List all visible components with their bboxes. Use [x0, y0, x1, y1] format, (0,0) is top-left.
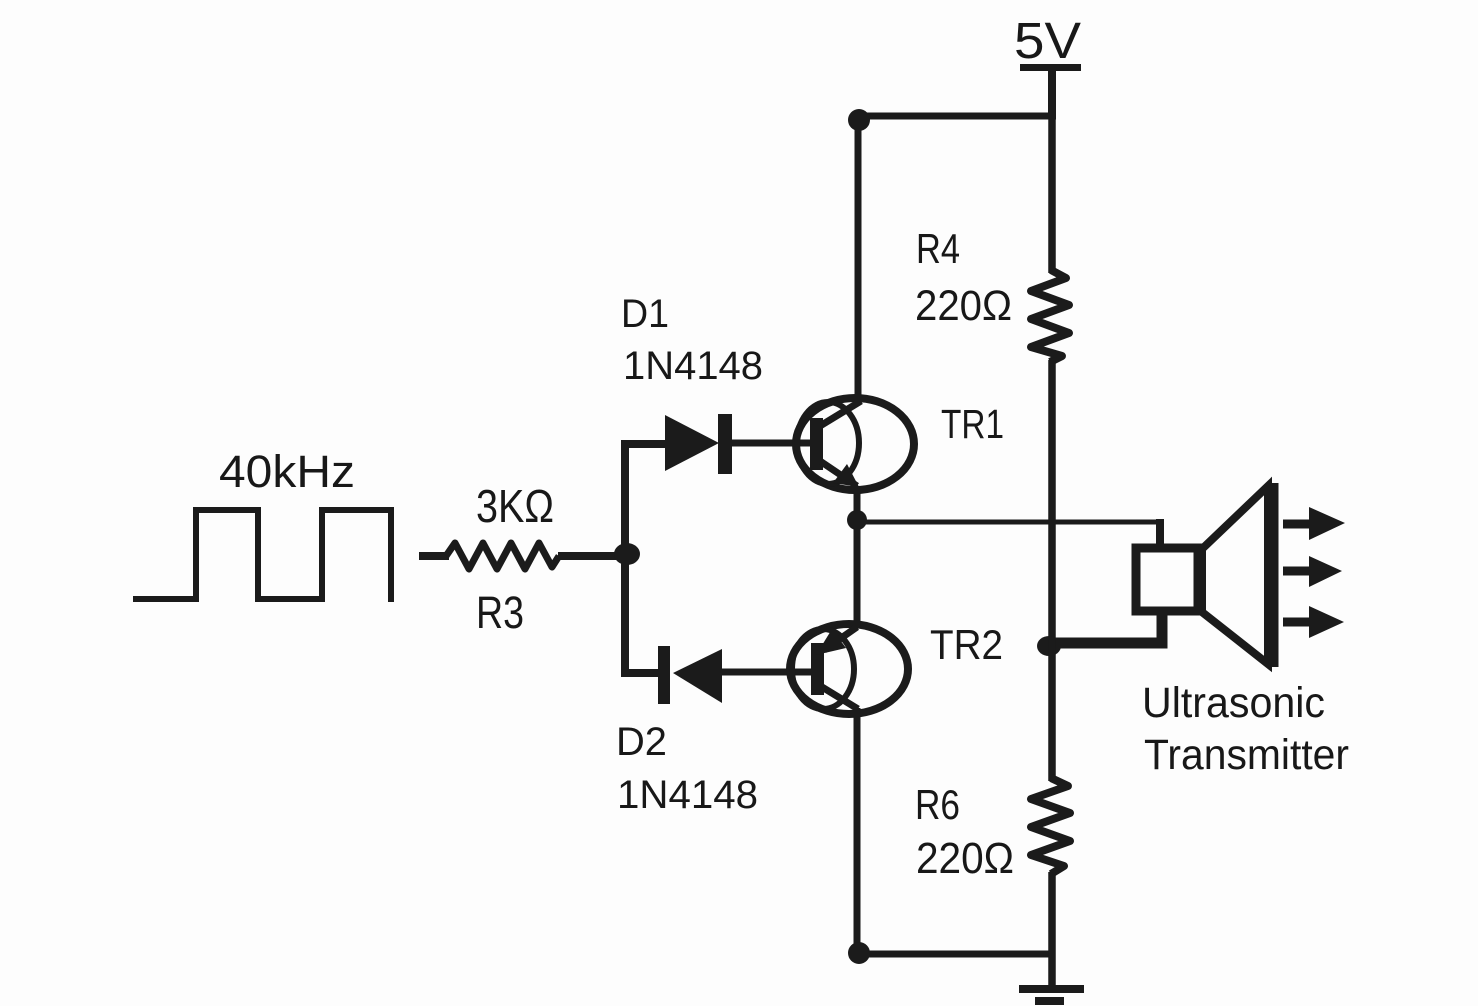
- speaker horn: [1202, 483, 1272, 667]
- wire D1 to TR1 base: [731, 440, 816, 447]
- wire node C to speaker: [1050, 612, 1162, 643]
- svg-text:D1: D1: [621, 292, 669, 336]
- wire node B to speaker: [857, 522, 1160, 549]
- diode D1: [665, 414, 732, 474]
- transistor TR2: [790, 624, 908, 714]
- ground: [1019, 989, 1084, 1001]
- svg-text:R3: R3: [476, 587, 524, 638]
- node B junction dot: [847, 510, 867, 530]
- svg-text:220Ω: 220Ω: [916, 834, 1014, 883]
- bottom rail wire: [855, 951, 1055, 958]
- svg-text:5V: 5V: [1014, 12, 1081, 69]
- wire 5V bar down to rail: [1048, 68, 1056, 119]
- speaker driver box: [1136, 548, 1198, 611]
- wire D2 to TR2 base: [722, 669, 817, 676]
- svg-text:40kHz: 40kHz: [219, 446, 355, 497]
- wire R4 down to node C: [1048, 360, 1056, 648]
- wire speaker top stub: [1156, 519, 1164, 550]
- svg-text:1N4148: 1N4148: [617, 773, 758, 817]
- svg-text:1N4148: 1N4148: [623, 344, 763, 388]
- svg-text:R4: R4: [916, 225, 960, 272]
- resistor R6: [1031, 778, 1070, 874]
- resistor R3: [446, 543, 559, 569]
- wire TR2 collector down to bottom rail: [854, 708, 861, 957]
- svg-text:Transmitter: Transmitter: [1144, 731, 1349, 779]
- wire input stub to R3: [419, 552, 449, 560]
- wire TR2 emitter up to node B: [854, 520, 861, 626]
- collector bus wire TR1 to rail: [855, 116, 862, 400]
- svg-text:R6: R6: [915, 781, 960, 828]
- sound arrow 2: [1283, 556, 1342, 587]
- top rail wire: [855, 113, 1056, 120]
- resistor R4: [1031, 270, 1069, 362]
- diode D2: [658, 646, 722, 704]
- svg-text:D2: D2: [616, 720, 667, 764]
- corner junction bottom-left: [848, 942, 870, 964]
- 5V supply bar: [1020, 64, 1081, 71]
- wire TR1 emitter to node B: [854, 486, 861, 524]
- wire R3 to node A: [558, 552, 633, 560]
- svg-text:220Ω: 220Ω: [915, 282, 1012, 330]
- svg-text:TR2: TR2: [930, 621, 1003, 668]
- corner junction top-left: [848, 109, 870, 131]
- wire node A down to D2: [625, 552, 660, 673]
- sound arrow 3: [1283, 606, 1344, 638]
- svg-text:Ultrasonic: Ultrasonic: [1142, 679, 1325, 727]
- transistor TR1: [796, 398, 914, 490]
- node A junction dot: [614, 543, 640, 565]
- wire node C down to R6: [1048, 640, 1056, 781]
- wire node A up to D1: [625, 444, 666, 558]
- 40kHz square wave: [133, 510, 391, 602]
- right vertical wire 5V to R4: [1048, 116, 1056, 273]
- svg-text:3KΩ: 3KΩ: [476, 480, 554, 532]
- sound arrow 1: [1283, 507, 1345, 540]
- wire R6 down to ground: [1048, 872, 1056, 988]
- svg-text:TR1: TR1: [941, 401, 1004, 447]
- node C junction dot: [1037, 636, 1061, 656]
